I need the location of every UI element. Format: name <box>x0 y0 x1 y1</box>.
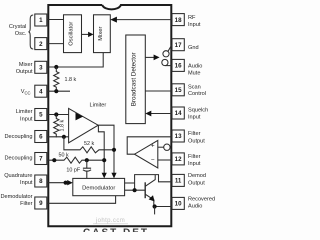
svg-text:18: 18 <box>175 17 182 24</box>
limiter amp triangle <box>69 108 99 142</box>
svg-text:Scan: Scan <box>188 84 201 90</box>
wire op-amp output to pin13 <box>127 137 172 154</box>
svg-text:7: 7 <box>39 156 43 163</box>
node pin5 junction <box>54 112 58 116</box>
switch contact circle upper (pin17) <box>163 51 169 57</box>
svg-text:14: 14 <box>175 110 182 117</box>
svg-text:Output: Output <box>188 138 205 144</box>
svg-text:3: 3 <box>39 65 43 72</box>
svg-text:Recovered: Recovered <box>188 196 215 202</box>
svg-text:Mute: Mute <box>188 70 200 76</box>
pin box 12 <box>172 153 184 165</box>
broadcast detector block <box>126 35 146 124</box>
mixer block U-mix <box>94 15 111 53</box>
node pin6 junction <box>62 135 66 139</box>
node 52k limiter-output junction <box>112 148 116 152</box>
svg-text:Limiter: Limiter <box>90 102 107 108</box>
svg-text:Control: Control <box>188 91 206 97</box>
svg-text:Output: Output <box>188 180 205 186</box>
svg-text:52 k: 52 k <box>84 141 94 147</box>
op-amp U2 triangle <box>135 140 158 168</box>
pin box 1 <box>35 14 47 26</box>
svg-text:1.8 k: 1.8 k <box>65 77 77 83</box>
node base junction <box>133 188 137 192</box>
node pin3 junction <box>54 65 58 69</box>
pin box 11 <box>172 174 184 186</box>
svg-text:Osc.: Osc. <box>15 31 27 37</box>
crystal osc brace <box>28 15 33 49</box>
pin box 3 <box>35 61 47 73</box>
svg-text:4: 4 <box>39 88 43 95</box>
svg-text:Mixer: Mixer <box>19 62 33 68</box>
svg-text:VCC: VCC <box>21 89 31 95</box>
wire pin18 RF input to mixer with arrow <box>117 19 173 21</box>
svg-text:8: 8 <box>39 178 43 185</box>
wire pin14 squelch input with arrow into detector <box>150 113 172 115</box>
pin box 16 <box>172 59 184 71</box>
svg-text:Limiter: Limiter <box>16 109 33 115</box>
resistor 1.8k (pin3-pin4) <box>54 67 59 91</box>
IC body outline with notch <box>48 5 171 226</box>
svg-text:10: 10 <box>175 201 182 208</box>
svg-text:12: 12 <box>175 156 182 163</box>
svg-text:johtp.ccm: johtp.ccm <box>95 218 125 224</box>
svg-text:Output: Output <box>16 69 33 75</box>
svg-text:Input: Input <box>188 161 201 167</box>
oscillator block U-osc <box>64 15 82 53</box>
emitter stub down <box>154 207 156 215</box>
pin box 13 <box>172 130 184 142</box>
transistor Q1 emitter <box>145 194 154 206</box>
wire demodulator to transistor base <box>125 189 146 191</box>
switch arrow <box>154 55 160 61</box>
svg-text:Audio: Audio <box>188 204 202 210</box>
wire lower contact to pin16 <box>165 65 172 67</box>
switch contact circle lower (pin16) <box>162 59 168 65</box>
svg-text:Demod: Demod <box>188 173 206 179</box>
capacitor 10pF <box>83 160 91 178</box>
svg-text:6: 6 <box>39 134 43 141</box>
svg-text:10 pF: 10 pF <box>66 167 80 173</box>
svg-text:Filter: Filter <box>20 201 33 207</box>
wire detector to pin15 <box>145 90 172 92</box>
limiter internal arrow <box>76 113 84 121</box>
svg-text:17: 17 <box>175 42 182 49</box>
svg-text:5: 5 <box>39 112 43 119</box>
wire pin8 to demodulator with arrow <box>47 182 69 184</box>
node pin4 junction <box>54 89 58 93</box>
wire demodulator upper output to vertical <box>125 182 135 184</box>
svg-text:13: 13 <box>175 133 182 140</box>
wire pin12 to op-amp minus input <box>158 159 173 161</box>
svg-text:RF: RF <box>188 15 196 21</box>
wire vertical junction to collector/pin11 <box>135 175 173 191</box>
svg-text:Filter: Filter <box>188 154 201 160</box>
svg-text:50 k: 50 k <box>59 153 69 159</box>
transistor Q1 collector <box>145 175 155 187</box>
pin box 5 <box>35 109 47 121</box>
pin box 2 <box>35 38 47 50</box>
node pin7 junction <box>52 158 56 162</box>
pin box 6 <box>35 131 47 143</box>
svg-text:1.8 k: 1.8 k <box>59 119 65 131</box>
svg-text:Input: Input <box>188 22 201 28</box>
resistor 1.8k (pin5-pin6) <box>54 115 59 138</box>
svg-text:Mixer: Mixer <box>98 27 104 41</box>
pin box 7 <box>35 153 47 165</box>
svg-text:Gnd: Gnd <box>188 45 199 51</box>
wire limiter output jog branch <box>98 125 104 173</box>
wire pin6 to limiter <box>47 136 69 138</box>
svg-text:Audio: Audio <box>188 63 202 69</box>
wire emitter to pin10 <box>154 206 173 208</box>
svg-text:−: − <box>151 157 155 164</box>
svg-text:Decoupling: Decoupling <box>5 155 33 161</box>
transistor Q1 base bar <box>144 182 146 198</box>
svg-text:16: 16 <box>175 63 182 70</box>
arrow into demodulator top (right) <box>111 173 116 179</box>
svg-text:Quadrature: Quadrature <box>4 173 32 179</box>
wire pin9 to demodulator bottom <box>47 196 116 204</box>
resistor 52k path from pin6 node <box>64 137 114 153</box>
wire limiter output right then down to demodulator <box>98 125 114 173</box>
node pin8 junction <box>64 181 68 185</box>
svg-text:Input: Input <box>188 115 201 121</box>
pin box 17 <box>172 39 184 51</box>
node 50k jog junction <box>102 158 106 162</box>
pin box 4 <box>35 85 47 97</box>
svg-text:Crystal: Crystal <box>9 24 26 30</box>
svg-text:Oscillator: Oscillator <box>69 22 75 46</box>
svg-text:Input: Input <box>20 116 33 122</box>
pin box 14 <box>172 107 184 119</box>
svg-text:Input: Input <box>20 180 33 186</box>
wire pin4 Vcc stub <box>47 90 70 92</box>
svg-text:Broadcast Detector: Broadcast Detector <box>131 52 138 106</box>
svg-text:15: 15 <box>175 87 182 94</box>
svg-text:9: 9 <box>39 200 43 207</box>
op-amp bubble on plus input <box>158 146 164 148</box>
svg-text:+: + <box>151 143 155 150</box>
svg-text:1: 1 <box>39 17 43 24</box>
wire pin2 to oscillator <box>47 43 64 45</box>
arrow into demodulator top (left) <box>102 173 107 179</box>
demodulator block <box>73 178 125 195</box>
svg-text:CAST DET: CAST DET <box>83 228 149 232</box>
node emitter junction <box>153 204 157 208</box>
wire upper contact to pin17 <box>168 45 172 51</box>
svg-text:Decoupling: Decoupling <box>5 134 33 140</box>
wire pin5 to limiter <box>47 114 69 116</box>
node 50k capacitor junction <box>85 158 89 162</box>
pin box 18 <box>172 14 184 26</box>
svg-text:Demodulator: Demodulator <box>82 185 115 191</box>
wire mixer output down-left to pin3 <box>47 53 104 67</box>
wire pin1 to oscillator <box>47 19 64 21</box>
pin box 10 <box>172 197 184 209</box>
svg-text:11: 11 <box>175 178 182 185</box>
svg-text:Demodulator: Demodulator <box>0 194 32 200</box>
pin box 8 <box>35 175 47 187</box>
wire oscillator to mixer with arrow <box>82 33 90 35</box>
transistor Q1 emitter arrow <box>149 195 155 201</box>
wire detector to switch arrow <box>145 56 154 58</box>
svg-text:Filter: Filter <box>188 131 201 137</box>
resistor 50k path from pin7 <box>47 157 105 163</box>
svg-text:2: 2 <box>39 41 43 48</box>
pin box 9 <box>35 197 47 209</box>
svg-text:Squelch: Squelch <box>188 108 208 114</box>
pin box 15 <box>172 84 184 96</box>
